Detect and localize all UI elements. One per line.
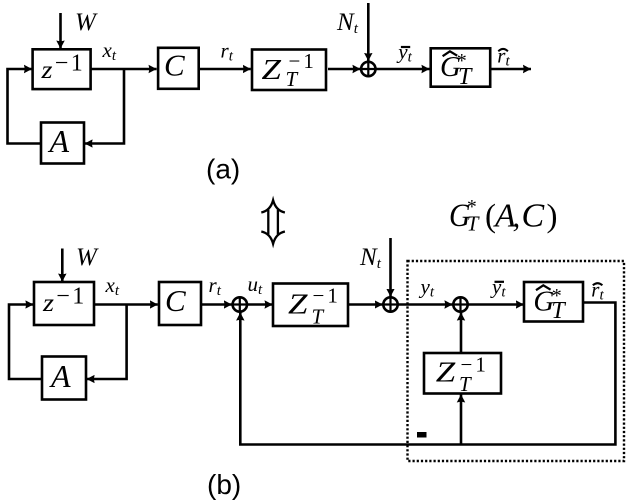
svg-text:rt: rt [221,39,234,65]
svg-text:z: z [40,56,53,84]
svg-text:T: T [458,64,473,90]
svg-text:−1: −1 [289,49,317,73]
svg-text:T: T [467,212,480,236]
svg-text:): ) [547,199,558,235]
svg-text:rt: rt [591,278,604,304]
svg-text:C: C [164,48,185,83]
svg-text:yt: yt [396,40,412,66]
svg-text:(b): (b) [207,469,241,500]
svg-text:C: C [522,198,545,235]
svg-text:T: T [551,298,566,324]
svg-text:C: C [165,283,186,318]
svg-text:yt: yt [419,275,435,301]
svg-text:ut: ut [248,272,264,298]
svg-text:rt: rt [497,44,510,70]
svg-text:−1: −1 [55,51,86,77]
svg-text:rt: rt [209,273,222,299]
svg-text:−1: −1 [313,283,341,307]
svg-text:A: A [48,123,70,159]
svg-text:W: W [75,9,98,36]
svg-text:W: W [76,244,99,271]
svg-text:−1: −1 [56,284,87,310]
svg-text:,: , [513,199,521,234]
svg-text:xt: xt [102,38,117,64]
svg-text:A: A [49,358,71,394]
svg-text:−1: −1 [461,353,489,377]
svg-text:Z: Z [436,357,456,388]
svg-text:(a): (a) [206,154,240,185]
svg-text:Nt: Nt [359,244,382,272]
svg-text:Z: Z [262,54,282,85]
svg-text:yt: yt [490,275,506,301]
svg-text:Z: Z [288,289,308,320]
svg-text:Nt: Nt [336,9,359,37]
svg-text:T: T [312,305,325,329]
svg-text:z: z [42,289,55,317]
svg-text:xt: xt [105,273,120,299]
